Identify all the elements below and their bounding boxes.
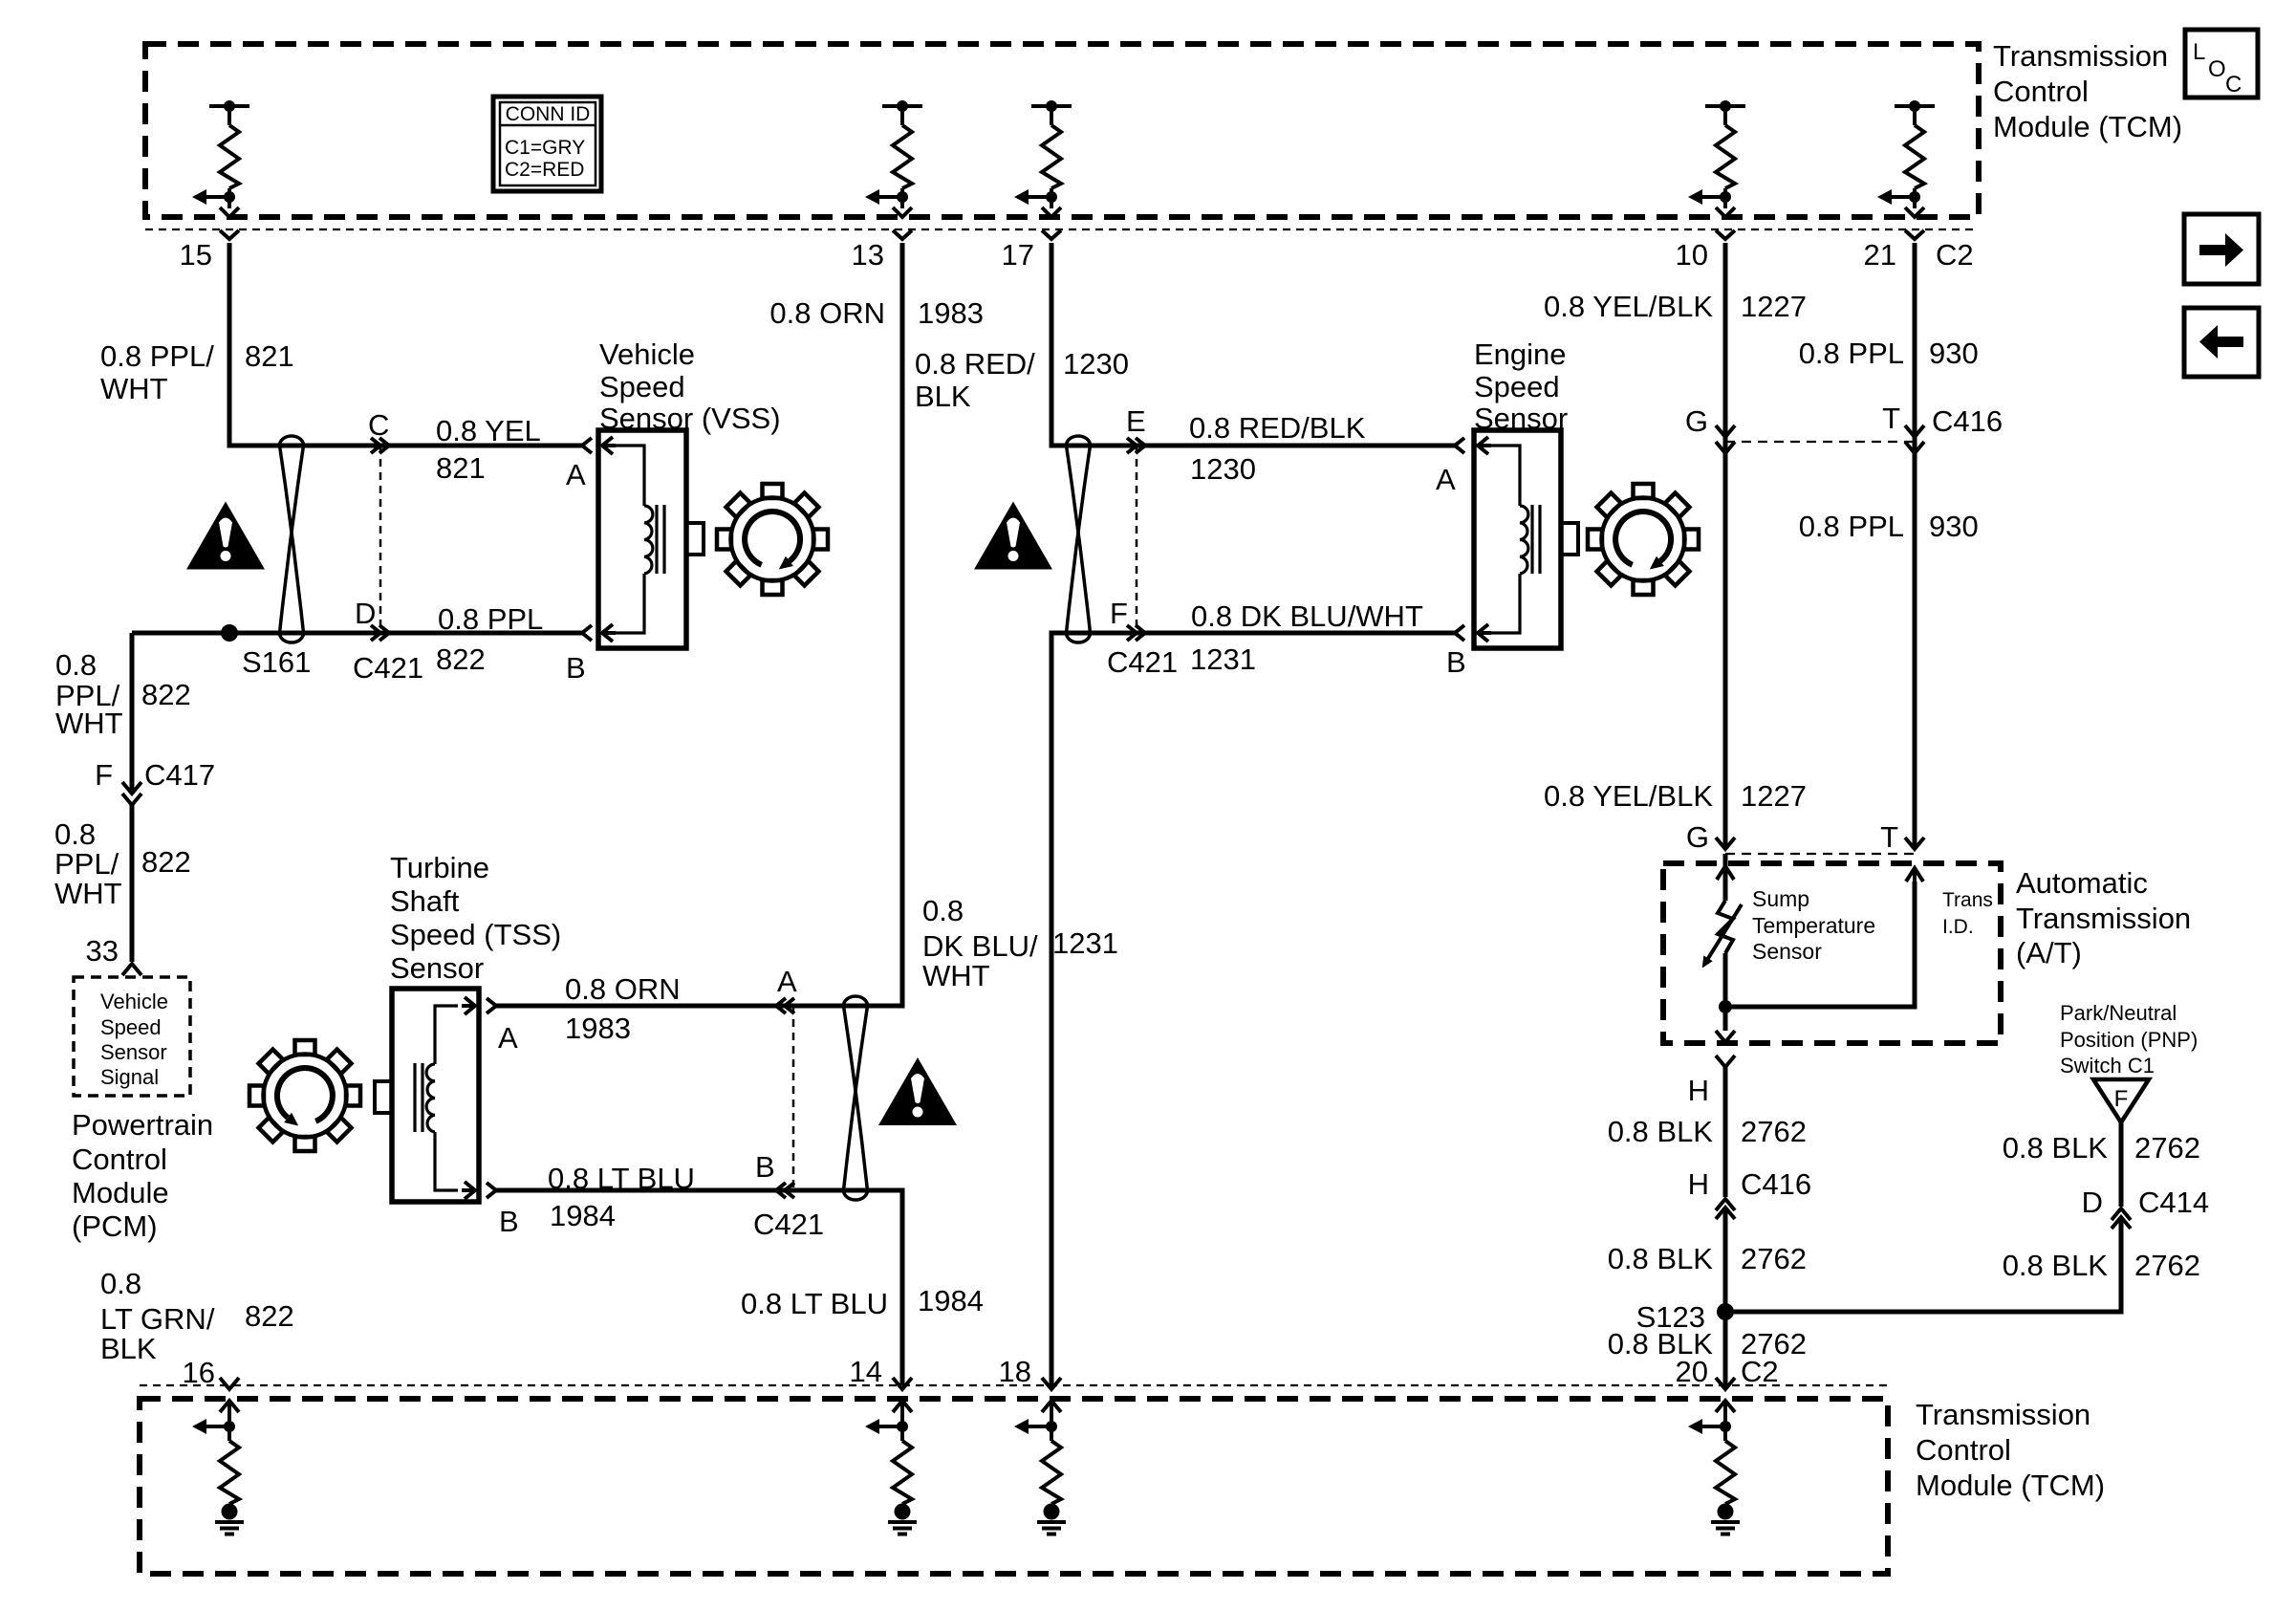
label TSS B pin / C421 — [499, 1205, 824, 1241]
label 0.8 DK BLU/WHT 1231 (column) — [922, 894, 1118, 992]
svg-text:Temperature: Temperature — [1752, 913, 1875, 938]
svg-text:B: B — [755, 1150, 775, 1184]
svg-text:1983: 1983 — [918, 296, 984, 330]
svg-text:CONN ID: CONN ID — [506, 103, 591, 125]
svg-text:C421: C421 — [753, 1208, 824, 1241]
svg-text:F: F — [1110, 597, 1128, 630]
svg-text:H: H — [1688, 1074, 1709, 1107]
label 0.8 YEL/BLK 1227 (upper) — [1544, 290, 1807, 323]
label 0.8 LT BLU 1984 (lower) — [741, 1284, 984, 1320]
connector C417 chevrons (pin F) — [122, 782, 141, 794]
svg-text:0.8 RED/BLK: 0.8 RED/BLK — [1189, 411, 1366, 445]
ground (below R6) — [215, 1522, 244, 1535]
LOC reference symbol box — [2185, 30, 2258, 98]
svg-text:930: 930 — [1929, 510, 1979, 543]
TSS pin B chevron — [487, 1183, 496, 1198]
label D / 0.8 PPL 822 / B / C421 — [353, 597, 586, 685]
wire 822: S161 row to VSS pin B / C421 pin D — [132, 631, 582, 636]
warning triangle (bottom) — [878, 1057, 957, 1125]
svg-text:Sensor: Sensor — [1752, 939, 1822, 964]
svg-text:0.8 BLK: 0.8 BLK — [1608, 1327, 1714, 1361]
svg-text:Transmission: Transmission — [1993, 39, 2168, 73]
svg-text:0.8 YEL/BLK: 0.8 YEL/BLK — [1544, 290, 1713, 323]
svg-text:Transmission: Transmission — [2016, 902, 2191, 935]
svg-text:0.8 ORN: 0.8 ORN — [769, 296, 885, 330]
resistor R2 (TCM internal, top) — [865, 100, 922, 217]
twisted pair symbol (TSS pair) — [844, 996, 868, 1200]
svg-text:2762: 2762 — [1741, 1327, 1807, 1361]
label 0.8 BLK 2762 (PNP lower) — [2003, 1249, 2200, 1282]
svg-text:Sensor (VSS): Sensor (VSS) — [599, 402, 781, 435]
svg-text:A: A — [566, 458, 586, 491]
label 0.8 BLK 2762 (below C416) — [1608, 1242, 1807, 1275]
resistor R5 (TCM internal, top) — [1877, 100, 1935, 217]
label 0.8 PPL/WHT 822 (upper left) — [55, 648, 191, 740]
svg-text:B: B — [1446, 645, 1466, 679]
pin 21 connector chevron — [1905, 230, 1924, 239]
svg-text:Module: Module — [72, 1176, 169, 1209]
svg-text:C1=GRY: C1=GRY — [505, 137, 585, 159]
svg-text:Control: Control — [1993, 75, 2089, 108]
svg-text:Powertrain: Powertrain — [72, 1108, 213, 1142]
svg-text:17: 17 — [1002, 238, 1034, 272]
wire 930 PPL: pin 21 down to C416 — [1913, 243, 1917, 849]
pin 13 connector chevron — [893, 230, 912, 239]
label Trans I.D. — [1942, 889, 1993, 938]
below-A/T chevron (pin H) — [1716, 1056, 1735, 1067]
label Turbine Shaft Speed (TSS) Sensor — [390, 851, 561, 985]
svg-text:822: 822 — [436, 642, 486, 676]
C421 pin E chevrons — [1127, 438, 1137, 453]
label 0.8 YEL/BLK 1227 (lower) — [1544, 779, 1807, 813]
svg-text:WHT: WHT — [100, 372, 168, 405]
PCM entry chevron (pin 33) — [122, 964, 141, 975]
wire 2762 BLK: S123 over to PNP switch — [1725, 1217, 2121, 1312]
pin 15 connector chevron — [220, 230, 239, 239]
wire into A/T: sump temp sensor feed — [1723, 854, 1728, 901]
A/T internal junction dot — [1719, 1000, 1732, 1013]
Vehicle Speed Sensor (VSS) component box — [598, 430, 686, 648]
label 0.8 ORN 1983 (TSS A) — [565, 965, 797, 1045]
resistor R6 (TCM internal, bottom) — [192, 1401, 239, 1520]
label 0.8 PPL 930 (upper) — [1799, 337, 1979, 370]
svg-text:Trans: Trans — [1942, 889, 1993, 911]
svg-text:C421: C421 — [1107, 645, 1178, 679]
svg-text:A: A — [777, 965, 797, 998]
TSS internal arrows and coil — [415, 1006, 458, 1190]
label 0.8 LT GRN/BLK 822 — [100, 1267, 294, 1365]
svg-text:0.8 BLK: 0.8 BLK — [2003, 1131, 2109, 1165]
wire 1230 RED/BLK: pin 17 down to engine sensor pin A — [1051, 243, 1455, 446]
svg-text:L: L — [2193, 39, 2205, 65]
svg-text:BLK: BLK — [915, 380, 971, 413]
C421 pin A chevrons (TSS) — [776, 998, 786, 1013]
svg-text:0.8: 0.8 — [100, 1267, 141, 1300]
CONN ID legend box — [493, 97, 601, 191]
connector C421 (A/B, TSS side) dashed line — [792, 1006, 795, 1190]
Turbine Shaft Speed (TSS) Sensor component box — [392, 989, 479, 1202]
svg-text:G: G — [1685, 404, 1708, 438]
svg-text:WHT: WHT — [922, 959, 990, 992]
pin 20 connector chevron (bottom) — [1716, 1378, 1735, 1389]
reluctor wheel (engine reluctor) — [1588, 484, 1699, 595]
svg-text:2762: 2762 — [1741, 1242, 1807, 1275]
svg-text:C421: C421 — [353, 651, 423, 685]
svg-text:A: A — [498, 1021, 518, 1055]
label F C417 — [95, 758, 215, 792]
svg-text:Engine: Engine — [1474, 337, 1567, 371]
wire 2762 BLK: C414 up to PNP switch — [2119, 1122, 2124, 1207]
pin 16 connector chevron (bottom) — [220, 1378, 239, 1389]
label 0.8 RED/BLK 1230 (column) — [915, 347, 1129, 413]
svg-text:LT GRN/: LT GRN/ — [100, 1302, 215, 1336]
label Vehicle Speed Sensor Signal — [100, 990, 168, 1089]
resistor R9 (TCM internal, bottom) — [1688, 1401, 1735, 1520]
label C / 0.8 YEL 821 / A — [368, 408, 586, 491]
svg-text:1231: 1231 — [1052, 926, 1118, 960]
ground (below R8) — [1037, 1522, 1066, 1535]
wire 1227 YEL/BLK: pin 10 down to C416 — [1723, 243, 1728, 849]
label Vehicle Speed Sensor (VSS) — [599, 337, 781, 435]
label TSS A pin — [498, 1021, 518, 1055]
svg-text:H: H — [1688, 1167, 1709, 1201]
label 0.8 BLK 2762 (below S123) — [1608, 1327, 1807, 1361]
Automatic Transmission (A/T) box — [1663, 863, 2001, 1043]
svg-text:0.8 ORN: 0.8 ORN — [565, 972, 681, 1006]
svg-text:A: A — [1436, 463, 1456, 496]
wire 822 PPL/WHT down-left branch to C417 — [130, 633, 135, 792]
svg-text:D: D — [355, 597, 376, 630]
svg-text:2762: 2762 — [2134, 1131, 2200, 1165]
svg-text:930: 930 — [1929, 337, 1979, 370]
engine sensor mounting tab — [1561, 523, 1578, 555]
label G T (A/T) — [1686, 820, 1898, 854]
engine sensor pin A chevron — [1455, 438, 1464, 453]
svg-text:16: 16 — [183, 1356, 215, 1389]
label D C414 — [2082, 1186, 2210, 1219]
svg-text:Transmission: Transmission — [1916, 1398, 2090, 1431]
svg-text:C414: C414 — [2138, 1186, 2209, 1219]
svg-text:C416: C416 — [1741, 1167, 1811, 1201]
svg-text:I.D.: I.D. — [1942, 916, 1974, 938]
svg-text:(A/T): (A/T) — [2016, 936, 2082, 969]
A/T connector chevrons (G/T) — [1716, 838, 1735, 849]
Trans I.D. arrow — [1906, 868, 1923, 889]
reluctor wheel (TSS reluctor) — [249, 1040, 360, 1151]
wire 1227 YEL/BLK lower segment — [1723, 449, 1728, 849]
Engine Speed Sensor component box — [1474, 430, 1561, 648]
svg-text:0.8: 0.8 — [54, 817, 96, 851]
C421 pin D chevrons — [371, 625, 380, 641]
svg-text:0.8 PPL: 0.8 PPL — [438, 602, 543, 636]
pin 14 connector chevron (bottom) — [893, 1378, 912, 1389]
svg-text:Speed (TSS): Speed (TSS) — [390, 918, 561, 951]
resistor R1 (TCM internal, top) — [192, 100, 249, 217]
connector C414 (D) chevrons — [2112, 1208, 2131, 1220]
svg-text:Sensor: Sensor — [1474, 402, 1568, 435]
ground (below R7) — [888, 1522, 917, 1535]
label 0.8 PPL/WHT 821 — [100, 339, 294, 405]
svg-text:1984: 1984 — [550, 1199, 616, 1232]
svg-text:C416: C416 — [1932, 404, 2003, 438]
label Automatic Transmission (A/T) — [2016, 866, 2191, 969]
svg-text:Automatic: Automatic — [2016, 866, 2148, 900]
resistor R7 (TCM internal, bottom) — [865, 1401, 912, 1520]
svg-text:(PCM): (PCM) — [72, 1209, 158, 1243]
warning triangle (middle) — [974, 502, 1052, 570]
svg-text:Park/Neutral: Park/Neutral — [2060, 1001, 2177, 1025]
svg-text:BLK: BLK — [100, 1332, 157, 1365]
svg-text:Shaft: Shaft — [390, 884, 460, 918]
connector C421 (E/F, engine side) dashed line — [1136, 446, 1138, 633]
label 0.8 PPL 930 (lower) — [1799, 510, 1979, 543]
ground (below R9) — [1711, 1522, 1740, 1535]
Vehicle Speed Sensor Signal box (PCM) — [74, 977, 190, 1096]
wire 1231 DK BLU/WHT: engine sensor pin B to pin 18 — [1051, 633, 1455, 1385]
svg-text:0.8 BLK: 0.8 BLK — [1608, 1242, 1714, 1275]
svg-text:0.8: 0.8 — [55, 648, 97, 682]
svg-text:Sump: Sump — [1752, 886, 1809, 911]
svg-text:13: 13 — [852, 238, 884, 272]
svg-text:0.8 LT BLU: 0.8 LT BLU — [548, 1162, 695, 1195]
wire 930 PPL lower segment — [1913, 449, 1917, 849]
svg-text:1227: 1227 — [1741, 290, 1807, 323]
resistor R8 (TCM internal, bottom) — [1014, 1401, 1061, 1520]
svg-text:PPL/: PPL/ — [54, 847, 119, 881]
VSS internal arrows and coil — [604, 446, 664, 633]
svg-text:Control: Control — [1916, 1433, 2011, 1467]
svg-text:B: B — [499, 1205, 519, 1238]
svg-text:G: G — [1686, 820, 1709, 854]
svg-text:1984: 1984 — [918, 1284, 984, 1317]
svg-text:C417: C417 — [144, 758, 215, 792]
svg-text:Signal: Signal — [100, 1065, 159, 1089]
pin 17 connector chevron — [1042, 230, 1061, 239]
svg-text:Module (TCM): Module (TCM) — [1993, 110, 2182, 143]
svg-text:Speed: Speed — [100, 1015, 162, 1039]
wire 2762 BLK: C416 to S123 to pin 20 — [1723, 1208, 1728, 1385]
sump temperature sensor symbol — [1707, 901, 1742, 960]
label 33 — [86, 934, 119, 968]
svg-text:E: E — [1126, 404, 1146, 438]
svg-text:0.8 PPL/: 0.8 PPL/ — [100, 339, 214, 373]
svg-text:Sensor: Sensor — [100, 1040, 167, 1064]
svg-text:T: T — [1882, 402, 1900, 435]
resistor R4 (TCM internal, top) — [1688, 100, 1745, 217]
label 0.8 LT BLU 1984 (TSS B) — [548, 1150, 775, 1232]
arrow into A/T (G side) — [1717, 866, 1734, 901]
svg-text:DK BLU/: DK BLU/ — [922, 929, 1038, 963]
svg-text:0.8 BLK: 0.8 BLK — [2003, 1249, 2109, 1282]
wire below sump sensor to junction — [1723, 953, 1728, 1031]
svg-text:1230: 1230 — [1190, 452, 1256, 486]
label: Transmission Control Module (TCM) top — [1993, 39, 2182, 143]
svg-text:0.8 LT BLU: 0.8 LT BLU — [741, 1287, 888, 1320]
label Powertrain Control Module (PCM) — [72, 1108, 213, 1243]
right arrow reference box — [2184, 214, 2259, 284]
TSS pin A chevron — [487, 998, 496, 1013]
svg-text:Sensor: Sensor — [390, 951, 484, 985]
svg-text:0.8 PPL: 0.8 PPL — [1799, 337, 1904, 370]
pin 18 connector chevron (bottom) — [1042, 1378, 1061, 1389]
label F / 0.8 DK BLU/WHT 1231 / B / C421 — [1107, 597, 1466, 679]
svg-text:Speed: Speed — [1474, 370, 1560, 403]
svg-text:S161: S161 — [242, 645, 311, 679]
svg-text:822: 822 — [245, 1299, 294, 1333]
svg-text:C: C — [2225, 72, 2242, 98]
reluctor wheel (VSS reluctor) — [717, 484, 828, 595]
wire 1984 LT BLU: TSS B row to pin 14 — [496, 1190, 902, 1385]
connector C421 (C/D, VSS side) dashed line — [379, 446, 382, 633]
pin 10 connector chevron — [1716, 230, 1735, 239]
A/T exit chevron — [1716, 1031, 1735, 1042]
svg-text:Speed: Speed — [599, 370, 685, 403]
svg-text:2762: 2762 — [2134, 1249, 2200, 1282]
svg-text:33: 33 — [86, 934, 119, 968]
svg-text:0.8 PPL: 0.8 PPL — [1799, 510, 1904, 543]
label Park/Neutral Position (PNP) Switch C1 — [2060, 1001, 2198, 1078]
VSS pin A chevron — [582, 438, 592, 453]
left arrow reference box — [2184, 308, 2259, 377]
svg-text:Vehicle: Vehicle — [599, 337, 695, 371]
engine sensor internal arrows and coil — [1480, 446, 1540, 633]
label E / 0.8 RED/BLK 1230 / A — [1126, 404, 1456, 496]
twisted pair symbol (VSS pair) — [280, 436, 304, 642]
C421 pin B chevrons (TSS) — [776, 1183, 786, 1198]
label 0.8 BLK 2762 (PNP upper) — [2003, 1131, 2200, 1165]
svg-text:15: 15 — [180, 238, 212, 272]
svg-text:18: 18 — [999, 1355, 1031, 1388]
svg-text:B: B — [566, 651, 586, 685]
svg-text:WHT: WHT — [55, 707, 123, 740]
engine sensor pin B chevron — [1455, 625, 1464, 641]
svg-text:14: 14 — [850, 1355, 882, 1388]
svg-text:0.8 DK BLU/WHT: 0.8 DK BLU/WHT — [1191, 599, 1423, 633]
svg-text:0.8: 0.8 — [922, 894, 964, 927]
TCM bottom connector line — [140, 1384, 1888, 1386]
svg-text:Turbine: Turbine — [390, 851, 489, 884]
svg-text:0.8 BLK: 0.8 BLK — [1608, 1115, 1714, 1148]
svg-text:T: T — [1880, 820, 1898, 854]
svg-text:1230: 1230 — [1063, 347, 1129, 381]
splice S161 — [221, 624, 238, 642]
label 0.8 ORN 1983 (top) — [769, 296, 984, 330]
Transmission Control Module (TCM) bottom box — [140, 1399, 1888, 1574]
label H C416 — [1688, 1167, 1812, 1201]
connector C416 (G/T) chevrons — [1716, 425, 1735, 437]
svg-text:0.8 YEL: 0.8 YEL — [436, 414, 541, 447]
C421 pin F chevrons — [1127, 625, 1137, 641]
twisted pair symbol (engine pair) — [1067, 436, 1091, 642]
label 0.8 BLK 2762 (above C416) — [1608, 1115, 1807, 1148]
VSS pin B chevron — [582, 625, 592, 641]
wire 1983 ORN: pin 13 down to TSS A row — [496, 243, 902, 1006]
svg-text:O: O — [2208, 56, 2226, 82]
wire 2762 BLK: A/T pin H down to C416 — [1723, 1067, 1728, 1197]
svg-text:821: 821 — [245, 339, 294, 373]
label G T C416 (upper) — [1685, 402, 2003, 438]
svg-text:Module (TCM): Module (TCM) — [1916, 1469, 2105, 1502]
connector C416 (H) chevrons — [1716, 1199, 1735, 1210]
svg-text:C: C — [368, 408, 389, 442]
VSS mounting tab — [686, 523, 704, 555]
wire 822 PPL/WHT below C417 to PCM — [130, 805, 135, 962]
resistor R3 (TCM internal, top) — [1014, 100, 1072, 217]
splice S123 — [1717, 1303, 1734, 1320]
svg-text:1227: 1227 — [1741, 779, 1807, 813]
TCM top connector line (C1/C2) — [145, 229, 1979, 230]
svg-text:F: F — [2114, 1086, 2129, 1112]
svg-text:1231: 1231 — [1190, 642, 1256, 676]
svg-text:Position (PNP): Position (PNP) — [2060, 1028, 2198, 1052]
label H (A/T out) — [1688, 1074, 1709, 1107]
svg-text:F: F — [95, 758, 113, 792]
label 0.8 PPL/WHT 822 (lower left) — [54, 817, 191, 910]
Transmission Control Module (TCM) top box — [145, 44, 1979, 217]
svg-text:C2=RED: C2=RED — [505, 159, 584, 181]
TSS mounting tab — [375, 1081, 392, 1113]
svg-text:822: 822 — [141, 845, 191, 879]
svg-text:Control: Control — [72, 1143, 167, 1176]
svg-text:Vehicle: Vehicle — [100, 990, 168, 1013]
svg-text:0.8 YEL/BLK: 0.8 YEL/BLK — [1544, 779, 1713, 813]
Park/Neutral Position (PNP) Switch C1 triangle — [2093, 1079, 2149, 1122]
svg-text:Switch C1: Switch C1 — [2060, 1054, 2155, 1078]
warning triangle (left) — [186, 502, 265, 570]
connector C416 dashed line — [1725, 441, 1915, 443]
svg-text:1983: 1983 — [565, 1012, 631, 1045]
svg-text:21: 21 — [1864, 238, 1896, 272]
svg-text:WHT: WHT — [54, 877, 122, 910]
label: Transmission Control Module (TCM) bottom — [1916, 1398, 2105, 1502]
svg-text:0.8 RED/: 0.8 RED/ — [915, 347, 1035, 381]
svg-text:10: 10 — [1676, 238, 1708, 272]
wire to Trans I.D. — [1725, 882, 1915, 1007]
label Sump Temperature Sensor — [1752, 886, 1875, 964]
svg-text:2762: 2762 — [1741, 1115, 1807, 1148]
svg-text:C2: C2 — [1936, 238, 1974, 272]
label Engine Speed Sensor — [1474, 337, 1568, 435]
C421 pin C chevrons — [371, 438, 380, 453]
A/T connector dashed line — [1725, 853, 1915, 855]
svg-text:D: D — [2082, 1186, 2103, 1219]
svg-text:821: 821 — [436, 451, 486, 485]
wire 821 PPL/WHT: pin 15 down and over to C421 pin C — [229, 243, 582, 446]
svg-text:822: 822 — [141, 678, 191, 711]
